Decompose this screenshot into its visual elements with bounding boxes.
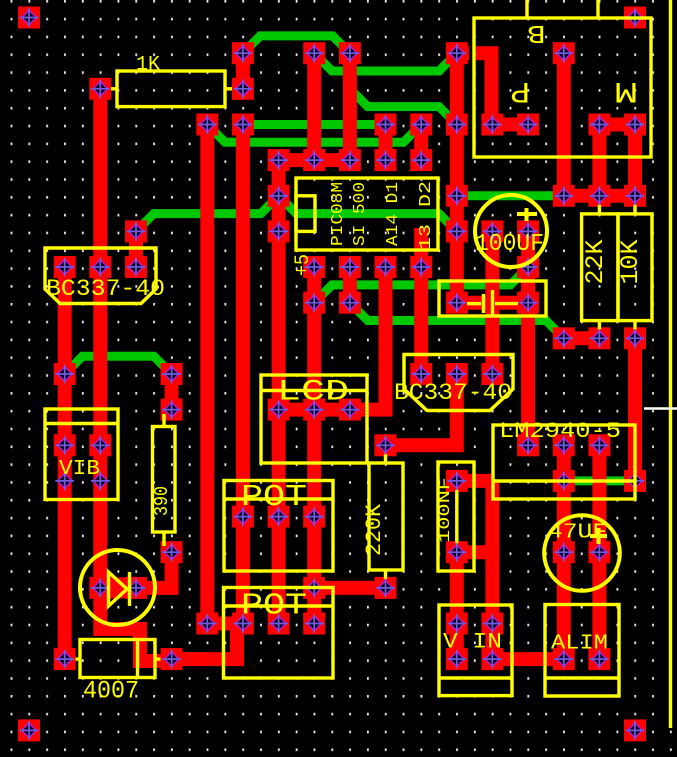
svg-text:22K: 22K [581,240,610,285]
wire [207,125,421,143]
pad: U1 pin 4 [410,256,432,278]
hole of Q2 pin 2 [447,365,466,384]
pad: LCD pin 3 [339,399,361,421]
board edge line [669,0,672,728]
hole of C3 pin 2 [519,293,538,312]
hole of U1 pin 7 [341,151,360,170]
pad: POT1 pin 1 [232,506,254,528]
hole of POT1 pin 1 [234,507,253,526]
hole of J3 pin B2 [519,115,538,134]
wire [628,338,642,481]
wire [457,296,528,310]
svg-text:P: P [510,73,530,107]
pad: via M [446,185,468,207]
pad: via L [268,185,290,207]
pad: via U [553,327,575,349]
wire [279,153,350,167]
wire [350,303,564,339]
wire [100,577,136,598]
pad: mounting hole BL [18,719,40,741]
wire [592,445,606,659]
pad: via Q [446,220,468,242]
hole of POT2 pin 2 [269,614,288,633]
connector J3 outline [474,18,651,157]
hole of R5 220K pin 2 [376,579,395,598]
wire [414,125,428,161]
hole of U1 pin 8 [305,151,324,170]
wire [207,617,243,631]
svg-text:V IN: V IN [443,630,502,655]
hole of via Q [447,222,466,241]
hole of via L [269,186,288,205]
hole of via A [234,44,253,63]
svg-text:13: 13 [417,224,436,250]
wire [314,581,385,595]
VIB mounting hole 2 [91,472,110,491]
wire [136,196,457,232]
svg-text:100UF: 100UF [475,231,544,258]
pad: J2 ALIM pin 1 [553,648,575,670]
pad: via W [161,363,183,385]
hole of via X [519,436,538,455]
wire [314,53,457,71]
hole of U2 LM2940 pin 3 [626,472,645,491]
U2 lead [493,479,635,482]
wire [564,476,635,485]
svg-text:VIB: VIB [59,458,100,481]
pad: R3 10K pin 2 [624,327,646,349]
pad: C1 100UF pin - [517,220,539,242]
pad: D1 pin 1 [89,577,111,599]
wire [386,374,457,445]
VIB mounting hole 1 [55,472,74,491]
diode D1 circle [80,550,155,625]
C1 plus mark [517,212,537,216]
hole of mounting hole BR [626,721,645,740]
hole of LCD pin 2 [305,400,324,419]
wire [236,53,250,89]
wire [557,53,571,196]
hole of C1 100UF pin + [483,222,502,241]
pad: J1 VIN pin 2 [481,613,503,635]
connector LCD outline [261,375,367,463]
svg-text:LM2940-5: LM2940-5 [499,419,621,444]
wire [243,120,386,129]
wire [599,118,635,132]
svg-text:SI 500: SI 500 [351,182,370,246]
capacitor C1 100UF circle [475,195,547,267]
hole of D2 4007 pin 2 [162,650,181,669]
pad: via V [54,363,76,385]
pad: C1 100UF pin + [481,220,503,242]
pad: U1 pin 1 (+5) [303,256,325,278]
hole of R4 390 pin 1 [162,400,181,419]
svg-text:A14 D1: A14 D1 [384,182,403,246]
pad: Q1 pin 1 [54,256,76,278]
capacitor C4 100NF outline [438,462,474,571]
pad: U1 pin 2 [339,256,361,278]
pad: D2 4007 pin 2 [161,648,183,670]
hole of C4 100NF pin 2 [447,543,466,562]
wire [236,125,250,624]
pad: D1 pin 2 [125,577,147,599]
hole of U1 pin 2 [341,258,360,277]
pad: via Y [553,434,575,456]
svg-text:220K: 220K [362,503,387,556]
hole of Q1 pin 1 [55,258,74,277]
pad: U2 LM2940 pin 2 [553,470,575,492]
wire [521,231,535,445]
resistor R5 220K outline [369,463,403,570]
pad: via C [339,42,361,64]
svg-text:PIC08M: PIC08M [329,182,348,246]
hole of via G [234,115,253,134]
pad: VIB pin 1 [54,434,76,456]
hole of via I [412,115,431,134]
svg-text:47UF: 47UF [548,522,607,545]
hole of C5 47UF pin - [590,543,609,562]
wire [450,53,464,303]
pad: POT2 pin 3 [303,613,325,635]
hole of U1 pin 3 [376,258,395,277]
hole of mounting hole TR [626,8,645,27]
pad: mounting hole TL [18,7,40,29]
hole of via P [269,222,288,241]
hole of via D [447,44,466,63]
white reference line [644,407,677,410]
wire [65,356,172,374]
hole of VIB pin 2 [91,436,110,455]
wire [476,53,492,124]
connector J2 ALIM outline [545,605,619,697]
pad: POT2 pin 2 [268,613,290,635]
pad: J2 ALIM pin 2 [588,648,610,670]
wire [343,53,357,160]
pad: U1 pin 3 [375,256,397,278]
wire [172,627,237,659]
hole of R4 390 pin 2 [162,543,181,562]
hole of via Z [590,436,609,455]
hole of POT2 pin 1 [234,614,253,633]
hole of R2 22K pin 2 [590,329,609,348]
pad: C3 pin 1 [446,292,468,314]
pad: C5 47UF pin + [553,541,575,563]
pad: J3 pin B1 [481,114,503,136]
pad: R2 22K pin 1 [588,185,610,207]
pad: via AA [303,577,325,599]
wire [592,125,606,196]
hole of via M [447,186,466,205]
wire [414,228,428,374]
hole of POT1 pin 3 [305,507,324,526]
pad: via J [446,114,468,136]
hole of Q1 pin 2 [91,258,110,277]
wire [272,160,286,623]
wire [485,231,499,374]
pad: U1 pin 7 [339,149,361,171]
wire [200,125,214,624]
pad: R1 1K pin 2 [232,78,254,100]
pad: via A [232,42,254,64]
hole of J3 pin M1 [590,115,609,134]
hole of via U [554,329,573,348]
pad: J3 pin B2 [517,114,539,136]
pad: C5 47UF pin - [588,541,610,563]
pad: via Z [588,434,610,456]
hole of via C [341,44,360,63]
hole of via Y [554,436,573,455]
pad: R2 22K pin 2 [588,327,610,349]
wire [564,331,600,345]
wire [379,125,393,161]
hole of J1 VIN pin 3 [447,650,466,669]
pad: via D [446,42,468,64]
hole of POT1 pin 2 [269,507,288,526]
pad: via T [339,292,361,314]
diode D2 4007 outline [80,640,155,678]
pad: J1 VIN pin 1 [446,613,468,635]
hole of J3 pin M2 [626,115,645,134]
hole of via V [55,365,74,384]
wire [485,481,499,659]
wire [58,267,72,659]
wire [93,89,107,588]
D1 symbol [109,572,128,606]
wire [557,445,571,659]
hole of R5 220K pin 1 [376,436,395,455]
svg-text:LCD: LCD [277,376,349,410]
wire [492,652,563,666]
hole of LCD pin 1 [269,400,288,419]
pad: via N [553,185,575,207]
resistor R2 22K outline [582,214,618,321]
pad: C4 100NF pin 1 [446,470,468,492]
hole of via R [519,258,538,277]
pad: U1 pin 5 [410,149,432,171]
svg-text:100NF: 100NF [436,477,454,543]
hole of Q2 pin 3 [483,365,502,384]
hole of U1 pin 5 [412,151,431,170]
hole of via T [341,293,360,312]
pad: POT1 pin 2 [268,506,290,528]
potentiometer POT2 outline [224,588,334,679]
wire [307,53,321,160]
hole of via AA [305,579,324,598]
hole of via W [162,365,181,384]
wire [279,267,386,410]
wire [628,125,642,196]
wire [343,267,357,303]
pad: R4 390 pin 1 [161,399,183,421]
wire [350,89,457,125]
pad: via P [268,220,290,242]
svg-text:1K: 1K [136,54,160,77]
pad: via F [196,114,218,136]
hole of J1 VIN pin 1 [447,614,466,633]
hole of C4 100NF pin 1 [447,472,466,491]
wire [129,231,143,267]
capacitor C5 47UF circle [544,515,620,591]
pad: via AB [196,613,218,635]
pad: C3 pin 2 [517,292,539,314]
hole of U1 pin 4 [412,258,431,277]
hole of J2 ALIM pin 1 [554,650,573,669]
pad: via X [517,434,539,456]
svg-text:D2: D2 [417,181,436,207]
svg-text:10K: 10K [616,240,645,285]
pad: via O [125,220,147,242]
hole of U1 pin 1 (+5) [305,258,324,277]
wire [136,552,172,588]
wire [307,267,321,624]
wire [457,191,564,200]
hole of R3 10K pin 1 [626,186,645,205]
svg-text:M: M [614,73,638,107]
pad: Q1 pin 3 [125,256,147,278]
pad: LCD pin 1 [268,399,290,421]
hole of VIB pin 1 [55,436,74,455]
pad: Q2 pin 2 [446,363,468,385]
pad: R3 10K pin 1 [624,185,646,207]
hole of mounting hole TL [20,8,39,27]
pad: VIB pin 2 [89,434,111,456]
wire [457,545,493,559]
hole of via K [269,151,288,170]
pad: via B [303,42,325,64]
hole of R1 1K pin 1 [91,79,110,98]
wire [492,118,529,132]
wire [457,474,493,488]
pad: J3 pin M1 [588,114,610,136]
pad: Q2 pin 1 [410,363,432,385]
svg-text:BC337-40: BC337-40 [46,276,165,302]
pad: U2 LM2940 pin 3 [624,470,646,492]
hole of R1 1K pin 2 [234,79,253,98]
pad: via R [517,256,539,278]
capacitor C3 outline [439,281,546,316]
C3 symbol [467,302,481,305]
pad: mounting hole BR [624,719,646,741]
potentiometer POT1 outline [224,481,333,572]
hole of U2 LM2940 pin 2 [554,472,573,491]
pad: via K [268,149,290,171]
hole of LCD pin 3 [341,400,360,419]
pad: via S [303,292,325,314]
pad: via E [553,42,575,64]
svg-text:B: B [528,18,546,48]
pad: R1 1K pin 1 [89,78,111,100]
hole of via B [305,44,324,63]
pad: R4 390 pin 2 [161,541,183,563]
IC U1 outline [296,178,438,250]
pad: R5 220K pin 1 [375,434,397,456]
pad: via H [375,114,397,136]
connector J1 V IN outline [439,605,512,696]
hole of via O [127,222,146,241]
hole of via E [554,44,573,63]
pad: J1 VIN pin 4 [481,648,503,670]
hole of C1 100UF pin - [519,222,538,241]
hole of J2 ALIM pin 2 [590,650,609,669]
wire [165,374,179,410]
pad: C4 100NF pin 2 [446,541,468,563]
pad: POT1 pin 3 [303,506,325,528]
C5 plus mark [590,534,607,538]
pad: R5 220K pin 2 [375,577,397,599]
hole of Q1 pin 3 [127,258,146,277]
hole of via AB [198,614,217,633]
wire [243,36,350,53]
hole of D2 4007 pin 1 [55,650,74,669]
svg-text:POT: POT [241,480,307,515]
hole of J3 pin B1 [483,115,502,134]
regulator U2 LM2940-5 outline [493,425,635,499]
pad: LCD pin 2 [303,399,325,421]
svg-text:4007: 4007 [83,677,139,706]
resistor R1 1K outline [117,71,225,107]
hole of via J [447,115,466,134]
hole of via N [554,186,573,205]
hole of via F [198,115,217,134]
hole of POT2 pin 3 [305,614,324,633]
hole of R3 10K pin 2 [626,329,645,348]
resistor R4 390 outline [153,427,176,533]
transistor Q2 BC337-40 outline [404,355,513,411]
pad: via G [232,114,254,136]
pad: via I [410,114,432,136]
wire [457,46,469,60]
wire [564,189,635,203]
svg-text:POT: POT [241,589,307,624]
hole of via H [376,115,395,134]
hole of C5 47UF pin + [554,543,573,562]
pad: Q1 pin 2 [89,256,111,278]
wire [100,596,171,661]
wire [314,267,528,303]
wire [450,552,464,659]
hole of Q2 pin 1 [412,365,431,384]
hole of D1 pin 2 [127,579,146,598]
hole of D1 pin 1 [91,579,110,598]
pad: U1 pin 6 [375,149,397,171]
transistor Q1 BC337-40 outline [45,248,156,304]
hole of C3 pin 1 [447,293,466,312]
svg-text:390: 390 [151,486,173,516]
hole of R2 22K pin 1 [590,186,609,205]
pad: mounting hole TR [624,7,646,29]
component VIB outline [45,409,118,500]
pad: J1 VIN pin 3 [446,648,468,670]
svg-text:+5: +5 [292,254,315,276]
pad: POT2 pin 1 [232,613,254,635]
svg-text:BC337-40: BC337-40 [394,380,512,406]
resistor R3 10K outline [618,214,652,321]
pad: U1 pin 8 [303,149,325,171]
hole of J1 VIN pin 4 [483,650,502,669]
pad: D2 4007 pin 1 [54,648,76,670]
hole of via S [305,293,324,312]
svg-text:ALIM: ALIM [551,633,608,656]
hole of mounting hole BL [20,721,39,740]
hole of U1 pin 6 [376,151,395,170]
pad: J3 pin M2 [624,114,646,136]
hole of J1 VIN pin 2 [483,614,502,633]
pad: Q2 pin 3 [481,363,503,385]
